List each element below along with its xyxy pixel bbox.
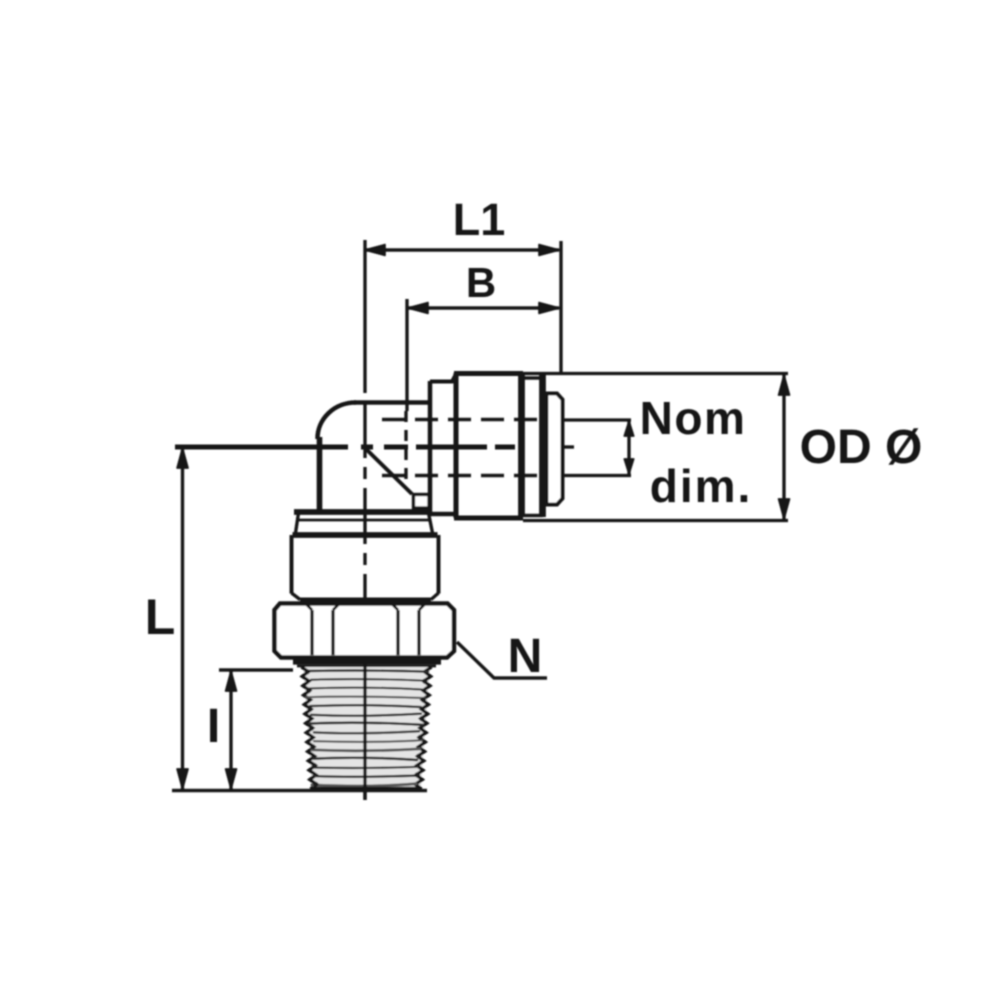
svg-text:Nom: Nom (640, 392, 747, 444)
hex nut chamfer tick 3 (392, 604, 398, 610)
thread bottom edge (313, 787, 419, 792)
svg-text:I: I (207, 700, 220, 753)
horizontal centerline / L top extension (175, 444, 348, 449)
svg-text:B: B (466, 259, 496, 306)
ring left bar (518, 375, 525, 517)
label N leader line (457, 642, 547, 678)
release collet (547, 394, 563, 505)
thread left zigzag (302, 667, 317, 789)
flange left side (296, 513, 299, 533)
dimension L1 line (365, 248, 559, 251)
bore hidden line vertical (404, 411, 407, 481)
dimension L1 arrow left (365, 245, 385, 256)
ring bottom edge (521, 514, 543, 517)
sleeve bottom edge (454, 515, 523, 520)
dimension L1 arrow right (539, 245, 559, 256)
flange right side (429, 513, 433, 533)
thread crest streaks (305, 669, 428, 787)
collar bottom edge (430, 512, 456, 517)
hex nut chamfer tick 4 (419, 604, 425, 610)
flange inner line (299, 519, 430, 522)
round section bottom chamfer left (292, 593, 301, 600)
collar left edge (428, 381, 433, 514)
elbow bore pocket (414, 495, 430, 509)
round section left edge (290, 535, 294, 594)
svg-text:N: N (508, 630, 543, 683)
ring right bar (539, 375, 546, 517)
elbow bore diagonal (366, 449, 412, 494)
elbow body left edge (317, 437, 323, 512)
dimension I line (229, 670, 232, 790)
centerline through threads (363, 664, 366, 800)
dimension I arrow top (226, 671, 237, 691)
Nom dimension line (627, 421, 630, 474)
hex nut chamfer tick 2 (333, 604, 339, 610)
round section bottom chamfer right (431, 593, 439, 600)
dimension B left extension line (405, 299, 408, 411)
dimension I top extension line (219, 668, 293, 671)
washer lower line (297, 665, 436, 668)
sleeve top edge (454, 371, 523, 376)
hex nut facet line 4 (417, 610, 420, 655)
thread body fill (303, 667, 430, 789)
round section right edge (437, 535, 441, 594)
Nom arrow bottom (624, 459, 633, 474)
thread right zigzag (415, 667, 431, 789)
dimension B arrow right (539, 303, 559, 314)
elbow body top edge (354, 400, 430, 405)
washer thick edge (293, 658, 441, 664)
svg-text:L: L (145, 589, 176, 645)
Nom arrow top (624, 421, 633, 436)
OD arrow top (779, 375, 790, 395)
hex nut facet line 2 (331, 610, 334, 655)
dimension L line (181, 447, 184, 790)
sleeve left edge (453, 373, 458, 518)
collar top edge (430, 374, 456, 382)
round section bottom edge (300, 598, 431, 602)
Nom bottom extension line (563, 474, 631, 477)
dimension L1 right extension line (559, 241, 562, 372)
OD top extension line (523, 372, 788, 375)
hex nut facet line 1 (310, 610, 313, 655)
dimension L arrow bottom (177, 769, 188, 789)
bore hidden line lower (382, 474, 543, 477)
bore hidden line upper (382, 418, 543, 421)
OD arrow bottom (779, 499, 790, 519)
svg-text:L1: L1 (453, 194, 506, 245)
flange bottom thick edge (293, 532, 438, 538)
flange top thick edge (294, 509, 428, 515)
hex nut facet line 3 (396, 610, 399, 655)
ring top edge (521, 376, 543, 379)
svg-text:OD Ø: OD Ø (800, 421, 923, 474)
dimension L arrow top (177, 448, 188, 468)
dimension B line (408, 306, 559, 309)
dimension I arrow bottom (226, 769, 237, 789)
Nom top extension line (563, 418, 631, 421)
L bottom extension line (172, 789, 427, 792)
dimension B arrow left (408, 303, 428, 314)
hex nut outline (275, 604, 455, 658)
elbow body corner arc (317, 402, 356, 439)
OD bottom extension line (523, 519, 788, 522)
vertical centerline (363, 240, 366, 393)
OD dimension line (782, 375, 785, 519)
hex nut chamfer tick 1 (306, 604, 312, 610)
svg-text:dim.: dim. (650, 460, 753, 512)
